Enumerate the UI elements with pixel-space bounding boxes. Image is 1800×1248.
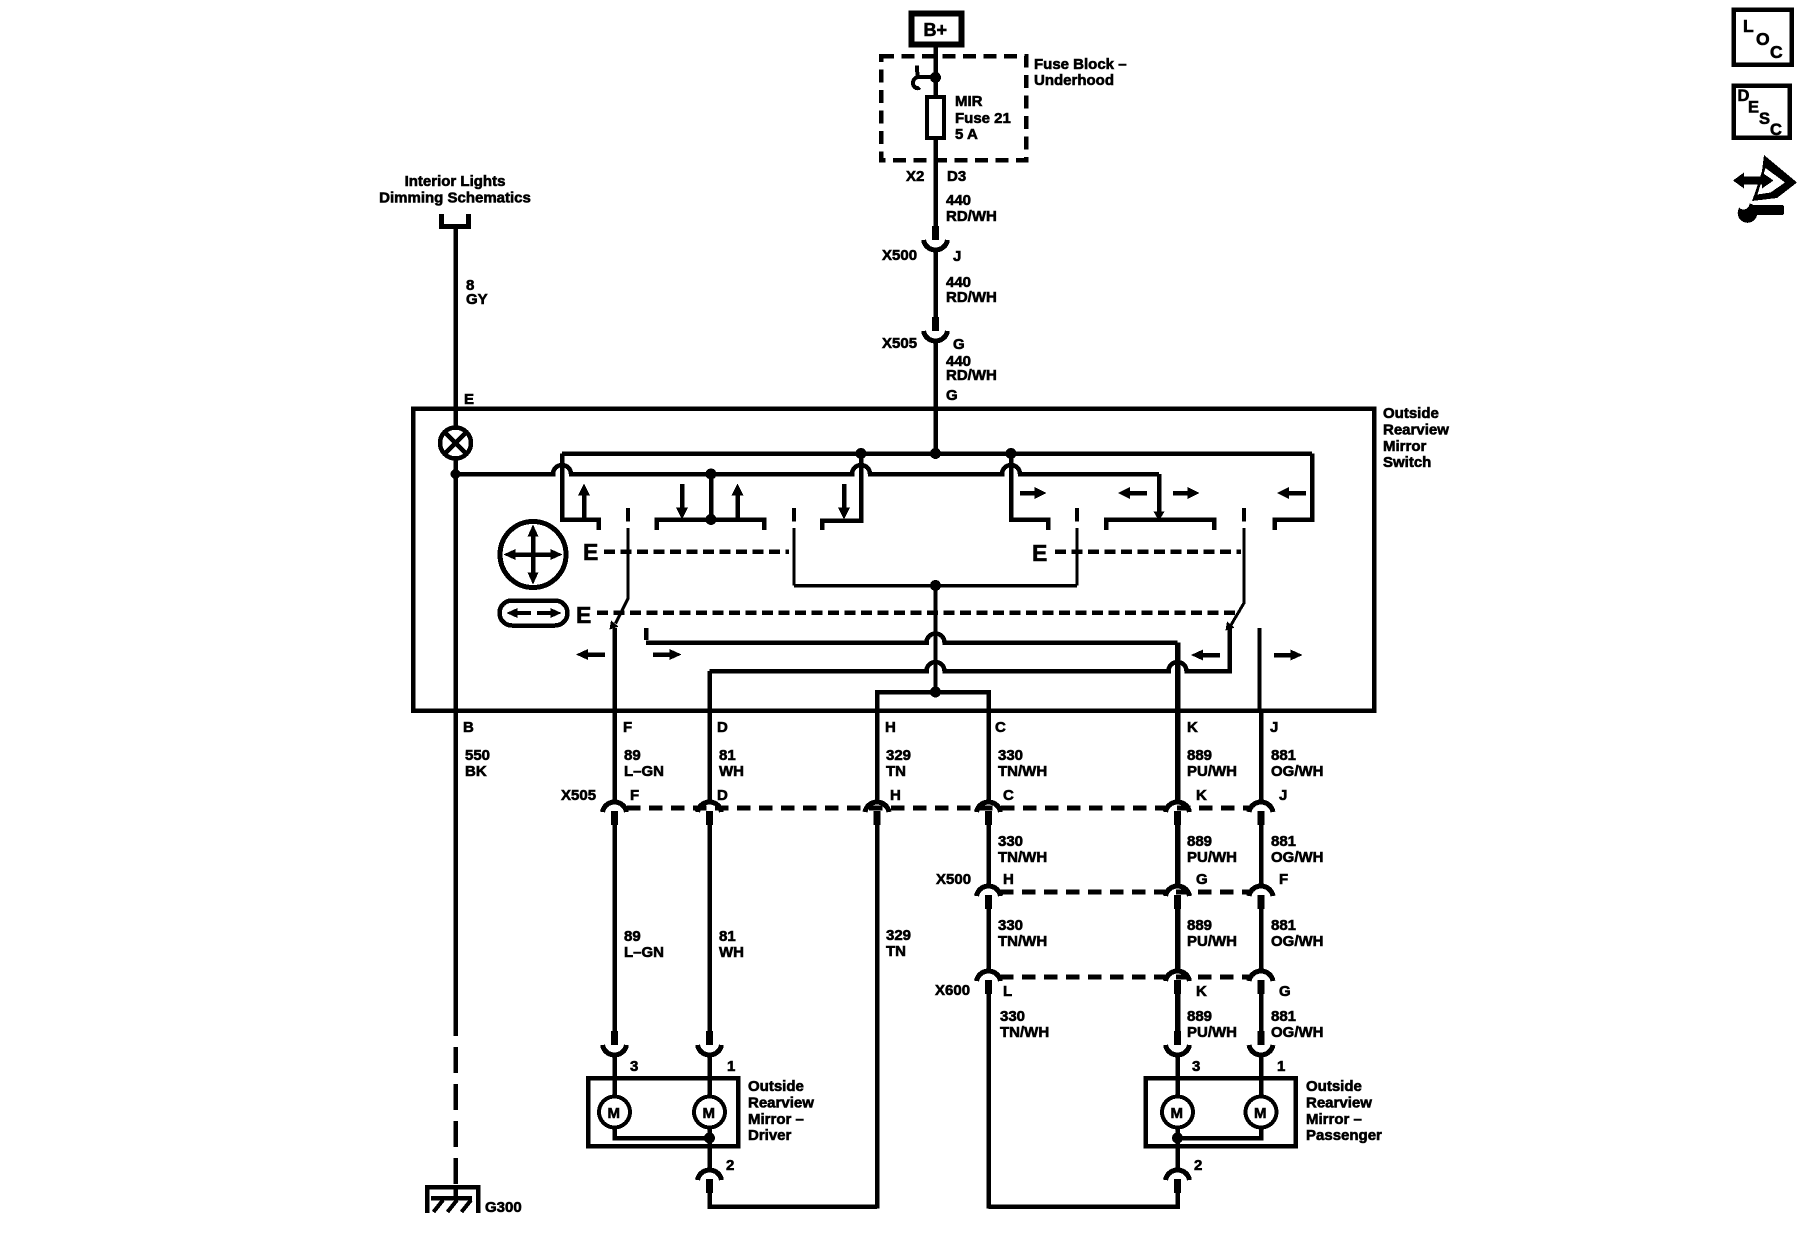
wire fuse to X500, net 440 RD/WH [906, 139, 997, 226]
svg-text:89: 89 [624, 747, 641, 764]
svg-text:Mirror: Mirror [1383, 438, 1427, 455]
label Outside Rearview Mirror Passenger [1306, 1078, 1382, 1144]
wire B+ to fuse block [933, 47, 938, 96]
svg-text:C: C [995, 719, 1006, 736]
svg-text:H: H [885, 719, 896, 736]
connector X500 pin F [1249, 871, 1288, 909]
contact seat up-left [562, 454, 599, 531]
svg-text:Rearview: Rearview [748, 1095, 814, 1112]
icon DESC box [1734, 86, 1790, 140]
contact J stub inside box [1258, 628, 1262, 710]
goalpost H-C split [877, 692, 989, 710]
svg-text:L: L [1743, 16, 1754, 36]
svg-text:G: G [1279, 983, 1291, 1000]
svg-text:J: J [1270, 719, 1278, 736]
connector X600 pin L [977, 971, 1013, 1000]
driver mirror box [588, 1078, 738, 1146]
svg-text:Fuse Block –: Fuse Block – [1034, 56, 1127, 73]
svg-text:S: S [1759, 110, 1770, 128]
junction dot Y1 at G feed [930, 448, 941, 459]
svg-text:881: 881 [1271, 747, 1296, 764]
svg-text:K: K [1196, 787, 1207, 804]
connector X505 pin D [698, 787, 729, 825]
wire H below box, net 329 TN [877, 710, 911, 800]
svg-text:D: D [717, 787, 728, 804]
svg-text:89: 89 [624, 928, 641, 945]
connector passenger pin 3 [1166, 1031, 1201, 1075]
switch lever F with contact dash [610, 508, 629, 630]
junction dot Y1 at 861 [856, 448, 867, 459]
svg-text:OG/WH: OG/WH [1271, 849, 1324, 866]
svg-text:Rearview: Rearview [1306, 1095, 1372, 1112]
wire passenger pin1 lead [1259, 1056, 1264, 1095]
svg-text:E: E [464, 391, 474, 408]
wire Y4 D-link with hops [710, 627, 1230, 710]
svg-text:J: J [953, 248, 961, 265]
svg-text:Underhood: Underhood [1034, 72, 1114, 89]
svg-text:E: E [583, 539, 598, 565]
svg-text:M: M [703, 1105, 716, 1122]
svg-text:3: 3 [630, 1058, 638, 1075]
dashed link E1 left [604, 549, 789, 554]
svg-text:Outside: Outside [1306, 1078, 1362, 1095]
wire J X500 to X600, net 881 OG/WH [1261, 909, 1324, 969]
svg-text:Outside: Outside [748, 1078, 804, 1095]
arrow right contact 5 [1020, 487, 1047, 499]
wire bus Y1 inside switch [562, 451, 1312, 456]
junction dot goalpost [930, 687, 941, 698]
svg-text:X505: X505 [561, 787, 596, 804]
connector row X600 dashed gang line [1000, 975, 1249, 980]
motor M passenger vertical [1162, 1097, 1193, 1128]
svg-text:329: 329 [886, 927, 911, 944]
connector row X505 dashed gang line [627, 806, 1249, 811]
wire dimmer feed, net 8 GY, pin E [456, 229, 488, 428]
arrow left contact 8 [1277, 487, 1306, 499]
svg-text:X505: X505 [882, 335, 917, 352]
svg-text:881: 881 [1271, 917, 1296, 934]
icon 4-way adjust pad [500, 522, 566, 588]
svg-text:889: 889 [1187, 1008, 1212, 1025]
svg-text:TN: TN [886, 763, 906, 780]
svg-text:D3: D3 [947, 168, 966, 185]
svg-text:330: 330 [998, 747, 1023, 764]
svg-text:TN: TN [886, 943, 906, 960]
wire F below box, net 89 L-GN [615, 710, 665, 800]
svg-text:J: J [1279, 787, 1287, 804]
svg-text:1: 1 [1277, 1058, 1285, 1075]
wire F to driver mirror, net 89 L-GN [615, 825, 665, 1031]
svg-text:GY: GY [466, 291, 488, 308]
wire C X600 to passenger path, net 330 TN/WH [989, 994, 1050, 1209]
svg-text:329: 329 [886, 747, 911, 764]
wire D below box, net 81 WH [710, 710, 745, 800]
wire driver return to H column [710, 1193, 878, 1207]
label Outside Rearview Mirror Driver [748, 1078, 814, 1144]
outside rearview mirror switch box [413, 409, 1374, 711]
wire driver pin3 lead [612, 1056, 617, 1095]
dashed link E1 right [1055, 549, 1241, 554]
arrow down contact 4 [838, 484, 850, 520]
label Fuse Block - Underhood [1034, 56, 1127, 89]
terminal clip symbol at fuse feed [913, 66, 941, 89]
svg-text:3: 3 [1192, 1058, 1200, 1075]
svg-text:OG/WH: OG/WH [1271, 933, 1324, 950]
passenger mirror box [1146, 1078, 1296, 1146]
off-page connector bracket [442, 214, 469, 227]
icon LOC box [1734, 10, 1792, 65]
arrow right contact 7 [1173, 487, 1200, 499]
wire J below box, net 881 OG/WH [1261, 710, 1324, 800]
motor M passenger horizontal [1246, 1097, 1277, 1128]
svg-text:WH: WH [719, 944, 744, 961]
connector X600 pin G [1249, 971, 1291, 1000]
connector X505 pin F [603, 787, 640, 825]
svg-text:L–GN: L–GN [624, 763, 664, 780]
svg-text:TN/WH: TN/WH [998, 849, 1047, 866]
svg-text:Outside: Outside [1383, 405, 1439, 422]
svg-text:440: 440 [946, 192, 971, 209]
svg-text:2: 2 [726, 1157, 734, 1174]
svg-text:330: 330 [1000, 1008, 1025, 1025]
arrow left lever F [576, 649, 605, 660]
arrow up contact 1 [578, 484, 590, 520]
svg-text:C: C [1003, 787, 1014, 804]
connector X505 pin H [865, 787, 901, 825]
svg-text:PU/WH: PU/WH [1187, 849, 1237, 866]
svg-text:E: E [1032, 540, 1047, 566]
contact Y3 with hop, to K column [646, 628, 1178, 643]
svg-text:881: 881 [1271, 833, 1296, 850]
svg-text:H: H [1003, 871, 1014, 888]
svg-text:TN/WH: TN/WH [998, 763, 1047, 780]
contact seat down-right fed from Y1 [822, 454, 861, 531]
contact link D vertical with dash [792, 508, 796, 586]
svg-text:F: F [1279, 871, 1288, 888]
node B+ battery feed [912, 14, 962, 45]
svg-text:330: 330 [998, 833, 1023, 850]
wire B column inside box [453, 458, 458, 710]
wire C below box, net 330 TN/WH [989, 710, 1048, 800]
svg-text:PU/WH: PU/WH [1187, 933, 1237, 950]
svg-text:5 A: 5 A [955, 126, 978, 143]
wire passenger return to L column [989, 1193, 1178, 1207]
svg-text:D: D [717, 719, 728, 736]
svg-text:Passenger: Passenger [1306, 1127, 1382, 1144]
svg-text:F: F [623, 719, 632, 736]
motor M driver horizontal [694, 1097, 725, 1128]
svg-text:C: C [1770, 42, 1783, 62]
icon pointer double arrow [1733, 155, 1797, 201]
svg-text:K: K [1196, 983, 1207, 1000]
svg-text:G: G [1196, 871, 1208, 888]
connector passenger pin 2 [1166, 1157, 1203, 1193]
wire driver motors common link [615, 1129, 710, 1146]
connector X505 pin C [977, 787, 1015, 825]
svg-text:Dimming Schematics: Dimming Schematics [379, 190, 531, 207]
contact seat left-right pair fed from Y2 [1106, 474, 1214, 530]
svg-text:OG/WH: OG/WH [1271, 1024, 1324, 1041]
svg-text:PU/WH: PU/WH [1187, 763, 1237, 780]
fuse block underhood dashed box [881, 56, 1026, 160]
svg-text:F: F [630, 787, 639, 804]
connector X505 pin K [1166, 787, 1208, 825]
svg-text:X2: X2 [906, 168, 924, 185]
connector row X500 dashed gang line [1000, 890, 1249, 895]
wire K column inside box [1175, 643, 1181, 711]
wire K X500 to X600, net 889 PU/WH [1178, 909, 1238, 969]
junction dot B-Y2 [451, 469, 461, 479]
wire driver pin1 lead [707, 1056, 712, 1095]
contact link C vertical with dash [1075, 508, 1079, 586]
svg-text:G: G [946, 387, 958, 404]
connector X505 pin G inline [882, 317, 965, 353]
connector driver pin 3 [603, 1031, 639, 1075]
arrow up contact 3 [732, 484, 744, 520]
connector X500 pin J inline [882, 226, 961, 265]
svg-text:B+: B+ [924, 20, 948, 40]
contact seat right-1 fed from Y1 [1011, 454, 1048, 531]
wire H long run, net 329 TN [877, 825, 911, 1209]
svg-text:M: M [1171, 1105, 1184, 1122]
svg-text:M: M [1254, 1105, 1267, 1122]
svg-text:Mirror –: Mirror – [748, 1111, 804, 1128]
label Outside Rearview Mirror Switch [1383, 405, 1449, 471]
connector X600 pin K [1166, 971, 1208, 1000]
motor M driver vertical [599, 1097, 630, 1128]
svg-text:X500: X500 [882, 247, 917, 264]
svg-text:PU/WH: PU/WH [1187, 1024, 1237, 1041]
arrow right lever F [653, 649, 682, 660]
wire passenger motors common link [1178, 1129, 1262, 1146]
svg-text:TN/WH: TN/WH [1000, 1024, 1049, 1041]
wire passenger pin 2 lead [1175, 1146, 1180, 1169]
connector driver pin 1 [698, 1031, 736, 1075]
junction dot Y1 at 1011 [1006, 448, 1017, 459]
svg-text:881: 881 [1271, 1008, 1296, 1025]
svg-text:Interior Lights: Interior Lights [405, 173, 506, 190]
wire B pin to ground, net 550 BK [456, 710, 491, 1185]
svg-text:889: 889 [1187, 833, 1212, 850]
svg-text:K: K [1187, 719, 1198, 736]
junction dot passenger common [1172, 1133, 1183, 1144]
svg-text:RD/WH: RD/WH [946, 289, 997, 306]
svg-text:Mirror –: Mirror – [1306, 1111, 1362, 1128]
svg-text:C: C [1770, 121, 1782, 139]
svg-text:E: E [576, 602, 591, 628]
connector passenger pin 1 [1249, 1031, 1285, 1075]
svg-text:889: 889 [1187, 747, 1212, 764]
wire driver pin 2 lead [707, 1146, 712, 1169]
arrow down contact 2 [676, 484, 688, 520]
connector X500 pin G [1166, 871, 1208, 909]
wire C X500 to X600, net 330 TN/WH [989, 909, 1048, 969]
pin letters below switch box [463, 719, 1278, 736]
svg-text:Driver: Driver [748, 1127, 792, 1144]
icon left-right selector [500, 601, 568, 626]
svg-text:889: 889 [1187, 917, 1212, 934]
svg-text:81: 81 [719, 928, 736, 945]
svg-text:550: 550 [465, 747, 490, 764]
contact seat left fed from Y1 right corner [1275, 454, 1313, 531]
wire J X505 to X500, net 881 OG/WH [1261, 825, 1324, 884]
wire J X600 to passenger pin1, net 881 OG/WH [1261, 994, 1324, 1041]
arrow right lever select [1274, 650, 1303, 661]
svg-text:G: G [953, 336, 965, 353]
wire passenger pin3 lead [1175, 1056, 1180, 1095]
wire X505 into switch pin G, net 440 RD/WH [936, 342, 997, 453]
connector driver pin 2 [698, 1157, 735, 1193]
svg-text:1: 1 [727, 1058, 735, 1075]
wire F column inside box [612, 628, 617, 710]
svg-text:WH: WH [719, 763, 744, 780]
svg-text:L: L [1003, 983, 1012, 1000]
svg-text:M: M [608, 1105, 621, 1122]
wire C X505 to X500, net 330 TN/WH [989, 825, 1048, 884]
svg-text:TN/WH: TN/WH [998, 933, 1047, 950]
svg-text:OG/WH: OG/WH [1271, 763, 1324, 780]
wire X500 to X505, net 440 RD/WH [936, 251, 997, 317]
svg-text:Switch: Switch [1383, 454, 1431, 471]
svg-text:Rearview: Rearview [1383, 422, 1449, 439]
svg-text:L–GN: L–GN [624, 944, 664, 961]
wire K below box, net 889 PU/WH [1178, 710, 1238, 800]
connector X505 pin J [1249, 787, 1287, 825]
label Interior Lights Dimming Schematics [379, 173, 531, 207]
svg-text:81: 81 [719, 747, 736, 764]
svg-text:H: H [890, 787, 901, 804]
wire link D-C horizontal [794, 584, 1077, 588]
svg-text:O: O [1756, 29, 1770, 49]
wire common drop to H-C goalpost [934, 586, 938, 693]
connector X500 pin H [977, 871, 1014, 909]
svg-text:B: B [463, 719, 474, 736]
svg-text:2: 2 [1194, 1157, 1202, 1174]
svg-text:MIR: MIR [955, 93, 983, 110]
arrow left contact 6 [1118, 487, 1147, 499]
svg-text:E: E [1748, 99, 1759, 117]
svg-text:RD/WH: RD/WH [946, 367, 997, 384]
svg-text:RD/WH: RD/WH [946, 208, 997, 225]
wire bus Y2 with hops [456, 465, 1160, 474]
svg-text:G300: G300 [485, 1199, 522, 1216]
svg-text:X500: X500 [936, 871, 971, 888]
switch lever mirror-select with contact dash [1226, 508, 1245, 631]
wire K X505 to X500, net 889 PU/WH [1178, 825, 1238, 884]
ground G300 [427, 1187, 522, 1216]
svg-text:330: 330 [998, 917, 1023, 934]
contact seat down-up pair fed from Y2 [657, 469, 765, 531]
fuse MIR Fuse 21 5A [927, 93, 1011, 143]
svg-text:X600: X600 [935, 982, 970, 999]
wire D to driver mirror, net 81 WH [710, 825, 745, 1031]
icon wrench [1733, 195, 1784, 223]
arrow left lever select [1191, 650, 1220, 661]
svg-text:Fuse 21: Fuse 21 [955, 110, 1011, 127]
dashed link E2 [597, 610, 1240, 615]
svg-text:BK: BK [465, 763, 487, 780]
wire K X600 to passenger pin3, net 889 PU/WH [1178, 994, 1238, 1041]
junction dot driver common [704, 1133, 715, 1144]
lamp illumination symbol [440, 428, 471, 459]
junction dot link at 935 [930, 580, 941, 591]
